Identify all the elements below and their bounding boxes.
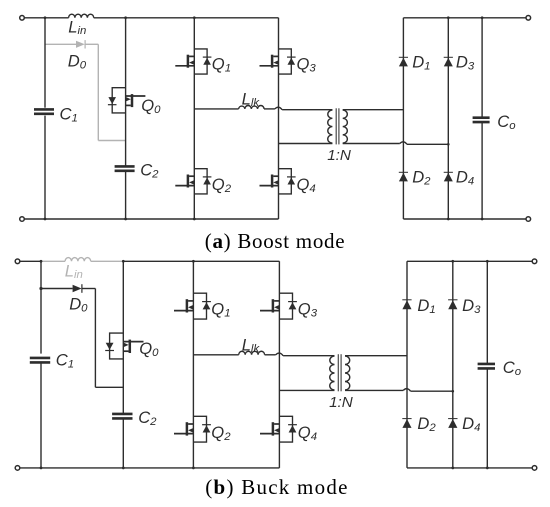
- wire: top rail, rectifier section: [407, 260, 535, 262]
- capacitor C1: [34, 109, 54, 113]
- wire: right bridge leg: [278, 261, 280, 468]
- wire: Q0 leg lower: [125, 171, 127, 219]
- node: Q0 bottom junction: [124, 218, 127, 221]
- transistor Q2: [175, 169, 211, 194]
- svg-text:1:N: 1:N: [329, 394, 353, 411]
- transformer core line 2: [340, 354, 342, 391]
- wire: Llk to hop: [264, 108, 275, 110]
- capacitor C1: [30, 358, 50, 363]
- wire: top rail, C1 node to Lin: [45, 17, 69, 19]
- node: D3/D4 leg midpoint: [447, 143, 450, 146]
- transformer primary winding: [328, 110, 333, 143]
- wire: C1 branch lower: [40, 362, 42, 468]
- wire: bridge midpoint to Llk: [194, 108, 238, 110]
- node: D3 leg bottom junction: [451, 467, 454, 470]
- wire: bottom rail, rectifier section: [407, 467, 535, 469]
- node: left leg top junction: [192, 260, 195, 263]
- wire: hop to primary top: [282, 109, 332, 111]
- wire hop over D1/D2 leg: [400, 142, 407, 145]
- wire: D1/D2 leg: [402, 18, 404, 219]
- node: Co bottom junction: [481, 218, 484, 221]
- wire hop over right bridge leg: [275, 107, 282, 110]
- wire hop over D1/D2 leg: [403, 389, 410, 392]
- transformer secondary winding: [345, 356, 350, 390]
- node: Co top junction: [481, 16, 484, 19]
- transistor Q3: [260, 293, 297, 319]
- wire: C1 branch lower: [44, 116, 46, 219]
- wire: bridge midpoint to Llk: [193, 354, 238, 356]
- wire: D0 cathode bar: [84, 40, 86, 48]
- wire: top rail, Q0 node to left bridge leg: [126, 17, 195, 19]
- wire: Co branch upper: [481, 18, 483, 117]
- wire: D0 branch to corner: [85, 43, 99, 45]
- node: C1 top junction: [40, 260, 43, 263]
- node: D3 leg bottom junction: [447, 218, 450, 221]
- wire: Co branch upper: [486, 261, 488, 363]
- wire: D0 branch horizontal from C1 node: [45, 43, 76, 45]
- svg-text:1:N: 1:N: [327, 147, 351, 164]
- wire: D1/D2 leg: [406, 261, 408, 468]
- terminal: output positive: [532, 259, 537, 264]
- transformer primary winding: [330, 356, 335, 390]
- node: C1 bottom junction: [40, 467, 43, 470]
- terminal: input positive: [20, 15, 25, 20]
- terminal: output positive: [526, 15, 531, 20]
- wire: left bridge leg: [193, 18, 195, 219]
- transformer core line 1: [337, 354, 339, 391]
- node: Co bottom junction: [486, 467, 489, 470]
- node: left leg bottom junction: [192, 467, 195, 470]
- wire: secondary top to D1 leg: [343, 109, 404, 111]
- diode D4: [448, 419, 457, 428]
- wire: Co branch lower: [486, 369, 488, 468]
- terminal: output negative: [532, 466, 537, 471]
- transformer core line 2: [338, 108, 340, 144]
- terminal: input positive: [15, 259, 20, 264]
- wire: top rail, Lin to Q0 node: [91, 260, 124, 262]
- wire: top rail, left bridge leg to right bridge leg: [194, 17, 278, 19]
- wire: top rail, Lin to Q0 node: [94, 17, 126, 19]
- diode D0: [76, 41, 85, 48]
- wire: bottom rail, rectifier section: [403, 218, 528, 220]
- node: C1 top junction: [44, 16, 47, 19]
- wire: D3/D4 leg: [447, 18, 449, 219]
- wire hop over right bridge leg: [276, 353, 283, 356]
- circuit (b) Buck mode: [15, 258, 537, 471]
- capacitor Co: [473, 118, 490, 122]
- diode D2: [402, 419, 411, 428]
- inductor Llk: [239, 106, 264, 109]
- node: left leg top junction: [193, 16, 196, 19]
- node: left leg bottom junction: [193, 218, 196, 221]
- caption (a) Boost mode: [205, 229, 345, 253]
- node: C1 bottom junction: [44, 218, 47, 221]
- transistor Q3: [260, 49, 296, 74]
- wire: D0 branch horizontal from C1 node: [41, 288, 73, 290]
- wire: C1 branch upper: [40, 261, 42, 353]
- inductor Lin: [65, 258, 91, 262]
- terminal: input negative: [20, 217, 25, 222]
- transformer core line 1: [335, 108, 337, 144]
- wire: D0 branch vertical: [97, 44, 99, 140]
- node: D0 branch junction on C1 leg: [39, 287, 42, 290]
- capacitor C2: [112, 414, 132, 419]
- diode D1: [399, 57, 408, 66]
- wire: Q0 leg lower: [122, 419, 124, 468]
- inductor Lin: [69, 14, 94, 18]
- wire: Q0 leg upper: [122, 261, 124, 413]
- wire: D0 cathode bar: [81, 284, 83, 293]
- wire: top rail, C1 node to Lin: [41, 260, 65, 262]
- wire: bottom rail, left terminal to right bridge leg: [18, 467, 280, 469]
- wire: top rail, left terminal to C1 node: [18, 260, 42, 262]
- transistor Q4: [260, 416, 297, 442]
- wire: top rail, Q0 node to left bridge leg: [123, 260, 193, 262]
- diode D0: [73, 285, 82, 292]
- wire: top rail, rectifier section: [403, 17, 528, 19]
- node: Q0 top junction: [124, 16, 127, 19]
- transistor Q1: [175, 49, 211, 74]
- wire: Co branch lower: [481, 123, 483, 219]
- transistor Q0: [108, 88, 145, 113]
- wire: bottom rail, left terminal to right bridge leg: [22, 218, 279, 220]
- node: D3 leg top junction: [451, 260, 454, 263]
- node: Q0 top junction: [122, 260, 125, 263]
- wire: D0 branch vertical: [94, 289, 96, 388]
- wire: right bridge leg: [278, 18, 280, 219]
- diode D3: [444, 57, 453, 66]
- wire: C1 branch upper: [44, 18, 46, 108]
- wire: hop to primary top: [283, 355, 334, 357]
- node: D3 leg top junction: [447, 16, 450, 19]
- wire: Q0 leg upper: [125, 18, 127, 166]
- circuit (a) Boost mode: [20, 14, 531, 221]
- node: Q0 bottom junction: [122, 467, 125, 470]
- diode D3: [448, 300, 457, 309]
- caption (b) Buck mode: [205, 475, 348, 499]
- capacitor Co: [478, 364, 495, 369]
- diode D2: [399, 172, 408, 181]
- node: D3/D4 leg midpoint: [452, 390, 455, 393]
- wire: top rail, left bridge leg to right bridge leg: [193, 260, 279, 262]
- wire: right bridge midpoint to primary bottom: [279, 389, 334, 391]
- capacitor C2: [115, 166, 135, 170]
- wire: secondary bottom to hop: [345, 389, 403, 391]
- diode D1: [402, 300, 411, 309]
- wire: right bridge midpoint to primary bottom: [279, 143, 333, 145]
- transistor Q0: [105, 333, 143, 359]
- transistor Q1: [174, 293, 211, 319]
- diode D4: [444, 172, 453, 181]
- svg-text:(b) Buck mode: (b) Buck mode: [205, 475, 348, 499]
- wire: D0 branch to corner: [82, 288, 96, 290]
- svg-text:(a) Boost mode: (a) Boost mode: [205, 229, 345, 253]
- wire: top rail, left terminal to C1 node: [22, 17, 45, 19]
- wire: D3/D4 leg: [452, 261, 454, 468]
- wire: Llk to hop: [265, 354, 276, 356]
- inductor Llk: [239, 351, 265, 355]
- wire: hop to D3/D4 leg: [411, 390, 453, 392]
- wire: hop to D3/D4 leg: [407, 143, 448, 145]
- wire: secondary top to D1 leg: [345, 355, 407, 357]
- transistor Q2: [174, 416, 211, 442]
- wire: D0 branch to Q0 leg: [95, 386, 123, 388]
- terminal: input negative: [15, 466, 20, 471]
- wire: D0 branch to Q0 leg: [98, 140, 125, 142]
- transformer secondary winding: [343, 110, 348, 143]
- terminal: output negative: [526, 217, 531, 222]
- wire: left bridge leg: [192, 261, 194, 468]
- node: Co top junction: [486, 260, 489, 263]
- wire: secondary bottom to hop: [343, 143, 400, 145]
- transistor Q4: [260, 169, 296, 194]
